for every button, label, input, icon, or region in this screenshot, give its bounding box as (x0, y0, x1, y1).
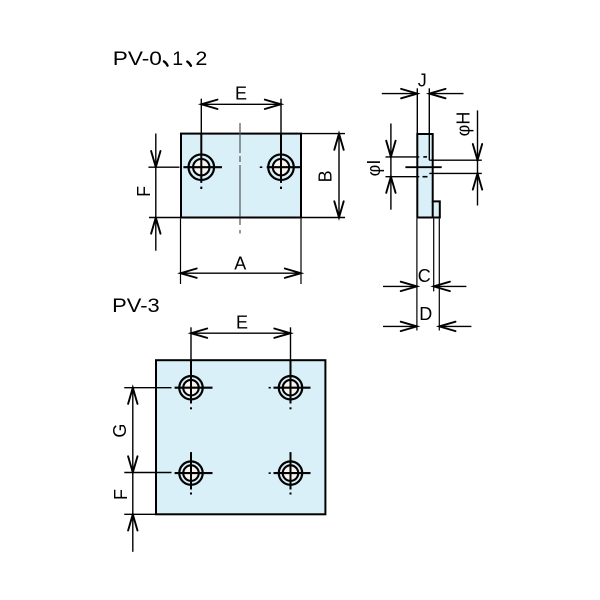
svg-text:A: A (234, 254, 246, 274)
svg-text:F: F (134, 186, 154, 197)
svg-text:E: E (236, 313, 248, 333)
svg-text:D: D (419, 304, 432, 324)
svg-text:B: B (316, 170, 336, 182)
svg-text:φI: φI (364, 160, 384, 177)
svg-text:J: J (418, 71, 427, 91)
svg-text:C: C (418, 266, 431, 286)
svg-text:E: E (235, 84, 247, 104)
svg-text:G: G (110, 424, 130, 438)
svg-text:PV-3: PV-3 (112, 295, 160, 317)
svg-text:F: F (111, 489, 131, 500)
svg-text:2: 2 (195, 48, 207, 70)
svg-text:1: 1 (172, 48, 183, 70)
svg-text:φH: φH (454, 112, 474, 137)
svg-text:PV-0: PV-0 (113, 48, 162, 70)
